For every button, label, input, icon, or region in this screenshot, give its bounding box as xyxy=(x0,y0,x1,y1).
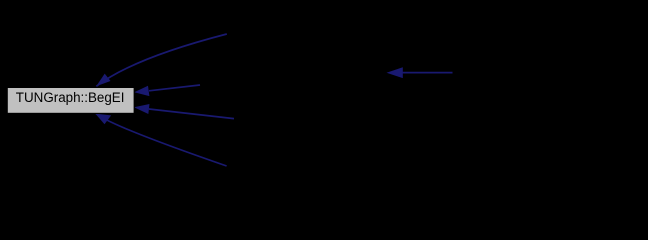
svg-text:TUNGraph::BegEI: TUNGraph::BegEI xyxy=(16,90,125,105)
